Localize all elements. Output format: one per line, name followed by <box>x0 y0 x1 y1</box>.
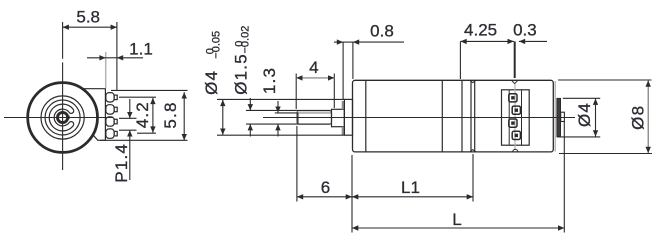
svg-text:1.3: 1.3 <box>260 67 279 94</box>
svg-text:Ø4: Ø4 <box>575 102 594 127</box>
dimension Ø1.5: dim line + arrows (outside) <box>248 98 253 137</box>
C-shaped retaining ring <box>49 104 73 131</box>
retaining washer top (gray) <box>342 101 345 109</box>
svg-text:−0.02: −0.02 <box>240 26 252 54</box>
connector block (side view) <box>502 90 530 145</box>
pin 4 (side view) <box>512 131 520 139</box>
dimension 0.3: dim line + arrow <box>519 39 547 44</box>
svg-text:5.8: 5.8 <box>161 101 180 128</box>
inner circle r17.5 <box>45 100 80 135</box>
screw bump bottom edge <box>513 149 518 152</box>
svg-text:−0.05: −0.05 <box>211 31 223 59</box>
dimension 6: left extension line <box>296 126 298 202</box>
gearbox divider 3 <box>461 80 463 152</box>
svg-text:4.2: 4.2 <box>133 101 152 128</box>
svg-text:L1: L1 <box>401 178 420 197</box>
dimension L1: shared extension line (body left bottom) <box>351 155 353 233</box>
dimension 0.8: dim line + arrows (outside) <box>334 39 404 44</box>
motor body outline <box>353 80 554 152</box>
shaft flat line <box>299 112 332 114</box>
svg-text:5.8: 5.8 <box>76 8 100 27</box>
dimension 4.25: left extension line <box>459 41 461 79</box>
connector inner column left <box>508 90 510 145</box>
gray pin center line (side view) <box>514 84 516 150</box>
retaining washer bottom (gray) <box>342 127 345 135</box>
svg-text:Ø8: Ø8 <box>629 105 648 130</box>
dimension Ø4 rear: dim line + arrows <box>593 99 598 137</box>
inner circle r21.6 <box>41 96 84 139</box>
horizontal center line (side view) <box>263 117 575 119</box>
dimension 1.3: dim line + arrows (outside) <box>275 101 280 137</box>
joint ring right edge <box>474 81 476 152</box>
pin 2 (side view) <box>512 106 520 114</box>
dimension 4: extension lines <box>296 74 334 110</box>
dimension Ø8: dim line + arrows <box>646 80 651 153</box>
svg-text:Ø4: Ø4 <box>202 70 221 95</box>
dimension L1: right extension line <box>472 154 474 202</box>
shaft ring (thick) <box>58 112 68 122</box>
pin 1 (front view) <box>106 93 117 102</box>
dimension 5.8 right: extension lines <box>100 90 188 140</box>
screw notch top edge <box>512 81 518 84</box>
dimension 4.25: dim line + arrows <box>460 39 513 44</box>
shaft tip end line <box>297 113 299 124</box>
svg-text:0.3: 0.3 <box>513 21 537 40</box>
dimension P1.4: arrows outside <box>127 99 132 180</box>
rear shaft nub <box>561 112 565 121</box>
pin 2 (front view) <box>106 105 117 114</box>
dimension Ø1.5: text (rotated with tolerance) <box>231 26 251 95</box>
dimension 5.8 right: dim line + arrows <box>182 92 187 140</box>
dimension 0.8: extension lines <box>343 42 353 100</box>
connector block (front view, behind circle) <box>80 89 105 141</box>
dimension Ø4 front: dim line + arrows <box>220 100 225 135</box>
gray projection line (front view) <box>105 52 107 88</box>
dimension Ø1.5: extension lines <box>246 110 331 124</box>
dimension Ø4 front: extension lines <box>217 99 345 135</box>
dimension 1.3: flat extension line <box>275 112 299 114</box>
shaft flat notch <box>66 116 69 120</box>
dimension L: right extension line <box>563 122 565 233</box>
gearbox divider 1 <box>365 80 367 152</box>
svg-text:4.25: 4.25 <box>464 21 497 40</box>
motor outer case circle (front view) <box>28 83 98 153</box>
dimension 4.2: extension lines <box>119 97 156 133</box>
dimension 1.1: dim lines + arrows <box>87 55 143 60</box>
dimension 4.2: dim line + arrows <box>150 98 155 133</box>
svg-text:4: 4 <box>309 58 318 77</box>
pin 3 (side view) <box>509 119 517 127</box>
pin 3 (front view) <box>106 117 117 126</box>
svg-text:P1.4: P1.4 <box>112 143 131 183</box>
pin 1 (side view) <box>509 94 517 102</box>
connector inner column right <box>521 90 523 145</box>
dimension 5.8 top: extension line right <box>116 22 118 91</box>
dimension Ø4 rear: extension lines <box>557 98 600 137</box>
joint ring left edge <box>470 81 472 152</box>
dimension Ø8: extension lines <box>558 80 652 154</box>
rear face gray edge <box>554 81 556 152</box>
shaft step section <box>332 109 345 126</box>
svg-text:1.1: 1.1 <box>129 40 153 59</box>
svg-text:0.8: 0.8 <box>370 21 394 40</box>
dimension Ø4 front: text (rotated with tolerance) <box>202 31 223 95</box>
horizontal center line (front view) <box>4 117 113 119</box>
front bearing boss <box>344 99 352 135</box>
dimension L1: dim line + arrows <box>352 194 473 199</box>
vertical center line (front view) <box>62 22 64 59</box>
joint ring bottom notch <box>470 150 476 152</box>
dimension 4: dim line + arrows <box>296 75 334 80</box>
dimension 4.25: thick leader to pin <box>514 41 516 78</box>
joint ring top notch <box>470 80 476 82</box>
shaft (side view) <box>297 111 332 125</box>
dimension 5.8 top: dim line + arrows <box>63 25 117 30</box>
svg-text:Ø1.5: Ø1.5 <box>231 53 250 95</box>
svg-text:6: 6 <box>321 178 330 197</box>
svg-text:L: L <box>452 210 461 229</box>
pin 4 (front view) <box>106 129 117 138</box>
dimension L: dim line + arrows <box>352 225 564 230</box>
dimension 6: dim line + arrows <box>297 194 352 199</box>
gearbox divider 2 <box>441 80 443 152</box>
pitch extension lines <box>119 118 137 130</box>
rear cap bar <box>557 98 561 136</box>
